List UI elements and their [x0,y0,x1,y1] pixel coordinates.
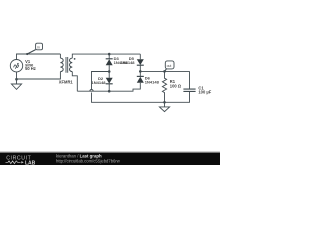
wire crossover hop [92,93,165,103]
resistor R1 [162,71,166,102]
flag out [165,69,167,71]
node out junction R1 top [163,70,166,73]
voltage source V1 [10,59,22,71]
flag in [27,50,35,54]
footer gradient [0,151,220,153]
label D3 [114,56,129,65]
wire primary top [17,54,61,60]
label D2 [92,76,107,85]
svg-text:http://circuitlab.com/c5Sjebd7: http://circuitlab.com/c5Sjebd7b6rw [56,158,121,163]
wire P rail [140,70,189,72]
node P junction D5-D6 [139,70,142,73]
node M junction D3-D2 [108,70,111,73]
capacitor C1 [189,71,191,89]
node primary-ground junction [15,78,18,81]
svg-text:LAB: LAB [25,160,36,165]
label D5 [121,56,136,65]
label D6 [145,76,160,85]
footer bar [0,153,220,165]
node R1 bottom junction [163,101,166,104]
wire M to ground column [92,72,110,90]
label R1 [170,79,182,89]
wire secondary top rail [72,54,140,58]
diode D2 [108,72,110,78]
CircuitLab logo [0,0,220,165]
node B junction D2 [108,90,111,93]
wire AC bottom rail [77,85,140,91]
wire secondary bottom jog [72,72,77,92]
wire primary bottom [17,72,61,84]
ground GND2 [164,102,166,107]
ground GND1 [11,84,21,89]
diode D5 [139,54,141,59]
label C1 [198,85,211,94]
label V1 value [25,59,36,71]
diode D6 [139,71,141,76]
node T junction D3 [108,53,111,56]
diode D3 [108,54,110,59]
transformer XFMR1 [60,58,63,72]
